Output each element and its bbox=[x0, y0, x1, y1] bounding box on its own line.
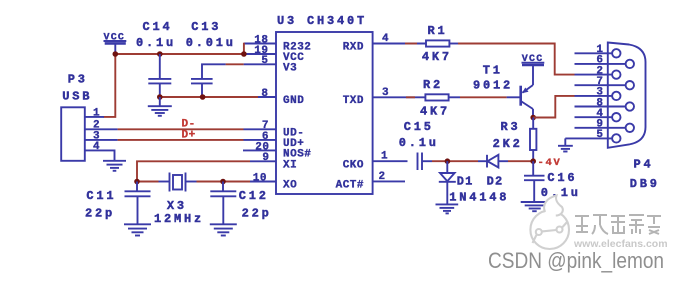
wire R2 to T1 base red bbox=[460, 96, 507, 98]
svg-text:12MHz: 12MHz bbox=[154, 212, 204, 226]
wire V3 blue from C13 bbox=[202, 64, 226, 79]
resistor R1 bbox=[405, 24, 458, 64]
svg-text:TXD: TXD bbox=[343, 95, 364, 107]
P4 pin 2 bbox=[575, 65, 621, 78]
wire pin2 ACT# lead bbox=[373, 180, 405, 182]
P4 pin 5 bbox=[565, 129, 620, 142]
svg-text:4K7: 4K7 bbox=[420, 104, 450, 118]
wire pin18 riser bbox=[243, 43, 245, 54]
P4 pin 9 bbox=[575, 119, 635, 132]
wire D2 to R3 junction red bbox=[508, 160, 533, 162]
wire CKO net red to D1 junction bbox=[432, 160, 478, 162]
svg-text:R3: R3 bbox=[501, 120, 521, 134]
svg-text:ACT#: ACT# bbox=[336, 180, 364, 192]
svg-text:P4: P4 bbox=[634, 157, 654, 171]
node VCC junction bbox=[113, 51, 119, 57]
connector P3 USB bbox=[61, 73, 92, 161]
P4 pin 7 bbox=[575, 76, 635, 89]
P4 pin 6 bbox=[575, 55, 635, 68]
svg-text:0.1u: 0.1u bbox=[399, 136, 439, 150]
svg-text:P3: P3 bbox=[68, 73, 88, 87]
svg-text:DB9: DB9 bbox=[630, 177, 660, 191]
wire GND net red bbox=[160, 96, 258, 98]
capacitor C14 bbox=[136, 20, 176, 97]
connector P4 DB9 body bbox=[608, 43, 660, 191]
wire pin5 lead bbox=[244, 63, 276, 65]
node R3 bottom junction bbox=[530, 158, 536, 164]
node C14 top junction bbox=[157, 51, 163, 57]
resistor R2 bbox=[406, 78, 460, 118]
svg-text:CSDN @pink_lemon: CSDN @pink_lemon bbox=[488, 248, 664, 273]
wire pin18 lead bbox=[244, 43, 276, 45]
svg-text:XI: XI bbox=[283, 159, 297, 171]
node T1 collector junction bbox=[530, 115, 536, 121]
svg-text:9012: 9012 bbox=[473, 78, 513, 92]
wire pin7 lead bbox=[244, 128, 277, 130]
wire P3 pin1 lead bbox=[85, 116, 104, 118]
diode D1 1N4148 bbox=[439, 161, 510, 204]
wire pin3 TXD lead bbox=[373, 96, 406, 98]
svg-text:XO: XO bbox=[283, 180, 297, 192]
capacitor C16 bbox=[524, 161, 581, 202]
svg-text:0.1u: 0.1u bbox=[136, 36, 176, 50]
svg-text:R2: R2 bbox=[423, 78, 443, 92]
wire pin20 lead bbox=[243, 149, 276, 151]
resistor R3 bbox=[493, 118, 537, 162]
wire pin1 CKO lead bbox=[373, 160, 408, 162]
svg-text:C16: C16 bbox=[547, 171, 577, 185]
wire pin4 RXD lead bbox=[373, 43, 405, 45]
svg-text:RXD: RXD bbox=[343, 42, 364, 54]
svg-text:GND: GND bbox=[283, 95, 304, 107]
svg-text:D1: D1 bbox=[457, 175, 474, 189]
svg-text:1N4148: 1N4148 bbox=[449, 190, 509, 204]
capacitor C15 bbox=[399, 120, 439, 170]
svg-text:C13: C13 bbox=[191, 20, 221, 34]
ground below P4 pin5 bbox=[558, 138, 573, 151]
svg-text:V3: V3 bbox=[283, 62, 297, 74]
watermark elecfans logo bbox=[530, 196, 569, 250]
wire pin10 lead bbox=[250, 181, 276, 183]
ground below D1 bbox=[436, 204, 459, 213]
svg-text:U3 CH340T: U3 CH340T bbox=[277, 14, 367, 28]
watermark chinese characters bbox=[575, 215, 661, 234]
svg-text:22p: 22p bbox=[242, 207, 272, 221]
wire pin6 lead bbox=[244, 139, 277, 141]
wire XO net red right bbox=[197, 181, 251, 183]
P4 pin 3 bbox=[575, 87, 621, 100]
svg-text:C15: C15 bbox=[404, 120, 434, 134]
wire pin19 lead bbox=[244, 53, 276, 55]
wire R1 to DB9 pin2 red bbox=[458, 44, 575, 75]
ground below C14 bbox=[148, 97, 172, 116]
svg-text:5: 5 bbox=[596, 129, 603, 141]
svg-text:-4V: -4V bbox=[538, 157, 562, 169]
svg-text:22p: 22p bbox=[85, 207, 115, 221]
wire V3 net red bbox=[226, 63, 244, 65]
node pin19 junction bbox=[241, 51, 247, 57]
svg-text:C14: C14 bbox=[143, 20, 173, 34]
wire RXD net red bbox=[405, 43, 417, 45]
wire TXD net red segments bbox=[406, 96, 415, 98]
VCC power symbol top-left bbox=[104, 32, 127, 54]
wire D- net red bbox=[118, 128, 244, 130]
wire pin8 lead bbox=[258, 96, 276, 98]
svg-text:T1: T1 bbox=[483, 64, 503, 78]
ground below C11 bbox=[124, 224, 151, 235]
capacitor C11 bbox=[85, 182, 151, 225]
wire XI net red bbox=[137, 161, 250, 181]
node crystal left junction bbox=[134, 179, 140, 185]
svg-text:8: 8 bbox=[261, 88, 268, 100]
node D1 junction bbox=[445, 158, 451, 164]
ground below C12 bbox=[210, 224, 237, 235]
wire P3 pin3 lead bbox=[85, 139, 118, 141]
wire collector to DB9 pin3 red bbox=[533, 96, 574, 118]
wire VCC down to USB pin1 bbox=[104, 54, 116, 117]
svg-text:C12: C12 bbox=[239, 189, 269, 203]
svg-text:9: 9 bbox=[262, 152, 269, 164]
wire pin9 lead bbox=[250, 160, 276, 162]
P4 pin 1 bbox=[575, 44, 621, 57]
crystal X3 bbox=[154, 173, 204, 226]
capacitor C12 bbox=[210, 182, 271, 225]
svg-text:USB: USB bbox=[62, 90, 92, 104]
P4 pin 4 bbox=[575, 108, 621, 121]
svg-text:D2: D2 bbox=[487, 175, 504, 189]
capacitor C13 bbox=[186, 20, 236, 97]
transistor T1 9012 bbox=[473, 64, 533, 118]
svg-text:CKO: CKO bbox=[343, 159, 364, 171]
wire P3 pin4 to ground bbox=[85, 150, 115, 160]
VCC power symbol at T1 bbox=[522, 54, 545, 65]
node crystal right junction bbox=[220, 179, 226, 185]
wire D+ net red bbox=[118, 139, 244, 141]
svg-text:R1: R1 bbox=[428, 24, 448, 38]
svg-text:4K7: 4K7 bbox=[422, 50, 452, 64]
ground below P3 pin4 bbox=[103, 161, 126, 171]
P4 pin 8 bbox=[575, 97, 635, 110]
node C13 bottom junction bbox=[200, 94, 206, 100]
svg-text:10: 10 bbox=[253, 172, 267, 184]
ground below C16 bbox=[521, 202, 549, 211]
svg-text:5: 5 bbox=[261, 55, 268, 67]
svg-text:D+: D+ bbox=[182, 130, 196, 142]
wire VCC net top red bbox=[115, 53, 244, 55]
op-amp U3 CH340T chip body bbox=[276, 14, 373, 194]
node C14 bottom junction bbox=[157, 94, 163, 100]
wire XO net red left bbox=[137, 181, 159, 183]
svg-text:2K2: 2K2 bbox=[493, 137, 523, 151]
svg-text:0.1u: 0.1u bbox=[541, 186, 581, 200]
svg-text:0.01u: 0.01u bbox=[186, 36, 236, 50]
diode D2 bbox=[478, 155, 508, 189]
svg-text:C11: C11 bbox=[86, 189, 116, 203]
wire P3 pin2 lead bbox=[85, 128, 118, 130]
